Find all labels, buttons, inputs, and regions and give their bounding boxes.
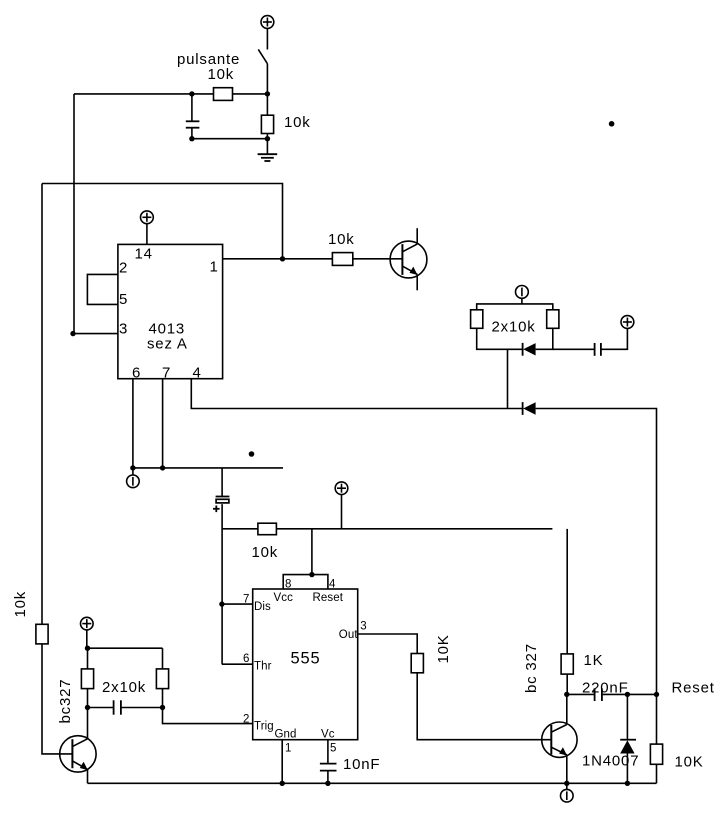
node junction bbox=[654, 692, 659, 697]
wire bbox=[507, 349, 509, 408]
svg-text:4: 4 bbox=[329, 579, 336, 591]
wire bbox=[73, 94, 75, 334]
wire bbox=[162, 689, 164, 708]
power +V right bbox=[621, 316, 634, 329]
power +V 4013 bbox=[141, 211, 154, 224]
node junction bbox=[219, 601, 224, 606]
svg-text:Trig: Trig bbox=[254, 721, 274, 733]
wire pin2 trig bbox=[163, 708, 253, 724]
transistor Q1 npn bbox=[390, 228, 427, 290]
connector symbol circle-1 bottom bbox=[561, 783, 574, 802]
resistor 2x10k right bbox=[547, 310, 559, 329]
resistor 2x10k L left bbox=[81, 669, 93, 689]
svg-text:Vcc: Vcc bbox=[274, 592, 294, 604]
svg-text:6: 6 bbox=[243, 653, 250, 665]
wire collector bbox=[566, 694, 568, 724]
wire bbox=[266, 28, 268, 49]
connector symbol circle-1 lower bbox=[127, 468, 140, 488]
node junction bbox=[564, 692, 569, 697]
wire emitter bbox=[566, 755, 568, 783]
node junction bbox=[130, 465, 135, 470]
stray node dot bbox=[249, 451, 255, 457]
wire 10k row bbox=[222, 528, 552, 530]
wire pin1 gnd bbox=[281, 740, 283, 784]
IC U2 555 bbox=[253, 589, 358, 740]
wire bbox=[536, 328, 553, 349]
node junction bbox=[309, 572, 314, 577]
wire bbox=[536, 409, 657, 695]
node junction bbox=[160, 465, 165, 470]
wire bbox=[626, 754, 628, 784]
svg-text:sez A: sez A bbox=[147, 336, 188, 353]
wire bbox=[602, 693, 657, 695]
node junction bbox=[280, 781, 285, 786]
svg-text:2x10k: 2x10k bbox=[492, 319, 536, 336]
svg-text:10nF: 10nF bbox=[343, 756, 380, 773]
wire bbox=[74, 93, 214, 95]
node junction bbox=[189, 91, 194, 96]
power +V bc327 left bbox=[81, 617, 94, 630]
wire top rail left 2x10k bbox=[87, 647, 163, 649]
svg-text:1: 1 bbox=[285, 743, 292, 755]
svg-text:Gnd: Gnd bbox=[275, 729, 297, 741]
wire bbox=[417, 673, 551, 740]
svg-text:bc 327: bc 327 bbox=[523, 643, 540, 693]
svg-text:8: 8 bbox=[285, 579, 292, 591]
wire pin4 bbox=[191, 379, 522, 409]
node junction bbox=[265, 91, 270, 96]
wire bbox=[221, 504, 223, 664]
node junction bbox=[325, 781, 330, 786]
node junction bbox=[189, 136, 194, 141]
wire bbox=[86, 630, 88, 648]
svg-text:3: 3 bbox=[119, 321, 128, 338]
stray node dot top right bbox=[609, 121, 615, 127]
diode D1 bbox=[523, 343, 536, 356]
wire pins 8-4 bbox=[283, 575, 328, 589]
wire pin3 bbox=[73, 333, 118, 335]
svg-text:Vc: Vc bbox=[321, 729, 335, 741]
wire pin6 thr bbox=[222, 663, 253, 665]
node junction bbox=[265, 136, 270, 141]
power +V top bbox=[261, 16, 274, 29]
wire 1K feed bbox=[566, 529, 568, 654]
wire pin5 vc bbox=[327, 740, 329, 763]
node junction bbox=[160, 705, 165, 710]
node junction bbox=[625, 692, 630, 697]
node junction bbox=[85, 646, 90, 651]
capacitor 10nF bbox=[320, 764, 337, 784]
wire bbox=[553, 348, 595, 350]
wire bbox=[521, 298, 523, 304]
switch pulsante lever bbox=[258, 49, 267, 63]
svg-text:555: 555 bbox=[291, 650, 321, 668]
capacitor electrolytic bbox=[213, 497, 229, 513]
wire bbox=[87, 689, 89, 739]
wire pin7 bbox=[162, 379, 164, 468]
svg-text:2: 2 bbox=[119, 260, 128, 277]
transistor Q3 bc327 right bbox=[542, 722, 577, 757]
wire bbox=[121, 707, 163, 709]
wire bbox=[656, 694, 658, 744]
wire pin14 bbox=[146, 224, 148, 245]
wire bbox=[192, 138, 268, 140]
svg-text:10K: 10K bbox=[675, 754, 704, 771]
wire bbox=[341, 495, 343, 529]
svg-text:14: 14 bbox=[135, 246, 153, 263]
wire bbox=[266, 134, 268, 139]
svg-text:bc327: bc327 bbox=[57, 679, 74, 724]
resistor 10K out bbox=[411, 654, 423, 673]
wire pin6 bbox=[132, 379, 134, 468]
resistor 10k pulldown bbox=[261, 115, 273, 133]
wire bbox=[566, 674, 568, 694]
wire feedback top bbox=[42, 184, 283, 259]
svg-text:Reset: Reset bbox=[672, 680, 715, 697]
wire bbox=[601, 328, 628, 349]
wire top rail 2x10k bbox=[477, 304, 553, 310]
wire pins 2-5 loop bbox=[87, 274, 118, 304]
svg-text:3: 3 bbox=[360, 621, 367, 633]
svg-text:Thr: Thr bbox=[254, 661, 272, 673]
svg-text:10K: 10K bbox=[435, 634, 452, 663]
wire bbox=[656, 764, 658, 783]
power +V 555 bbox=[335, 482, 348, 495]
svg-text:10k: 10k bbox=[208, 66, 235, 83]
connector symbol circle-1 bbox=[516, 286, 529, 299]
ground bbox=[258, 139, 278, 161]
wire bbox=[42, 644, 72, 754]
svg-text:Reset: Reset bbox=[313, 592, 344, 604]
diode D2 bbox=[523, 402, 536, 415]
svg-text:1: 1 bbox=[210, 259, 219, 276]
wire pin1 bbox=[223, 258, 333, 260]
svg-text:10k: 10k bbox=[328, 231, 355, 248]
wire bbox=[162, 648, 164, 669]
wire emitter to rail bbox=[87, 769, 89, 783]
capacitor debounce bbox=[186, 94, 200, 139]
wire ground rail bbox=[88, 782, 657, 784]
svg-text:5: 5 bbox=[119, 291, 128, 308]
svg-text:10k: 10k bbox=[12, 591, 29, 618]
wire bbox=[233, 93, 268, 95]
svg-text:2x10k: 2x10k bbox=[102, 679, 146, 696]
wire bbox=[266, 64, 268, 115]
svg-text:Dis: Dis bbox=[254, 601, 271, 613]
node junction bbox=[70, 331, 75, 336]
resistor 10k timing bbox=[258, 523, 277, 535]
resistor 10k pulsante bbox=[214, 88, 233, 101]
wire bbox=[221, 468, 223, 496]
resistor 1K bbox=[561, 654, 573, 674]
resistor 2x10k left bbox=[471, 310, 483, 329]
svg-text:1N4007: 1N4007 bbox=[582, 753, 639, 770]
transistor Q2 bc327 left bbox=[60, 736, 96, 772]
wire out pin3 bbox=[358, 634, 418, 654]
diode 1N4007 bbox=[620, 740, 636, 754]
resistor 10k base Q1 bbox=[332, 253, 352, 266]
node junction bbox=[85, 705, 90, 710]
wire pin7 dis bbox=[222, 603, 253, 605]
wire bottom rail 2x10k bbox=[477, 328, 523, 349]
svg-text:10k: 10k bbox=[252, 544, 279, 561]
wire 220nF bbox=[567, 693, 595, 695]
resistor 10k left bbox=[36, 624, 48, 644]
resistor 10K right bbox=[650, 744, 662, 764]
capacitor speedup left bbox=[114, 700, 121, 714]
wire bbox=[626, 694, 628, 739]
svg-text:Out: Out bbox=[339, 629, 359, 641]
node junction bbox=[625, 781, 630, 786]
capacitor 220nF bbox=[595, 688, 602, 701]
wire pins 6-7 bus bbox=[133, 467, 283, 469]
svg-text:5: 5 bbox=[330, 743, 337, 755]
capacitor coupling right bbox=[595, 343, 601, 356]
node junction bbox=[564, 781, 569, 786]
wire left rail bbox=[41, 184, 43, 625]
svg-text:1K: 1K bbox=[584, 652, 604, 669]
IC U1 4013 bbox=[118, 244, 223, 378]
svg-text:4: 4 bbox=[193, 365, 202, 382]
resistor 2x10k L right bbox=[156, 669, 168, 689]
wire bbox=[353, 258, 403, 260]
wire bbox=[87, 648, 89, 669]
node junction bbox=[280, 256, 285, 261]
wire to 555 pins 8 4 bbox=[311, 529, 313, 575]
wire bbox=[88, 707, 114, 709]
svg-text:10k: 10k bbox=[284, 114, 311, 131]
